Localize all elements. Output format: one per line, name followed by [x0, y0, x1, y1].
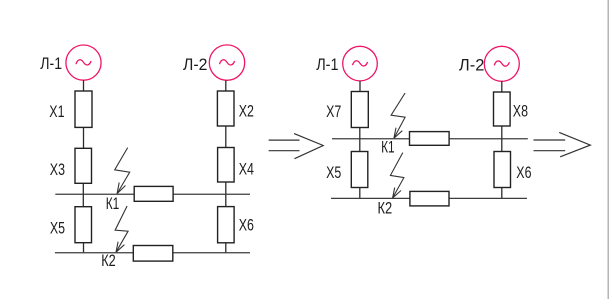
wire X2 to X4	[225, 126, 227, 148]
transform arrow (middle)	[269, 134, 324, 159]
reactor X1	[75, 91, 92, 127]
generator G1 (Л-1 left scheme)	[66, 45, 101, 80]
svg-text:Л-2: Л-2	[459, 55, 484, 74]
reactor X2	[217, 91, 234, 126]
label X6 (left scheme)	[239, 217, 254, 235]
svg-text:X6: X6	[239, 217, 254, 235]
fault arrow K1 (right scheme)	[391, 93, 405, 138]
reactor X5 (left scheme)	[75, 207, 92, 243]
wire X8 to bus 1 (right scheme)	[501, 126, 503, 139]
wire G2 to X2	[225, 80, 227, 91]
reactor block on bus 1 (left scheme)	[134, 186, 173, 201]
bus 2 (right scheme)	[331, 197, 527, 199]
svg-text:X5: X5	[326, 164, 341, 182]
svg-text:К2: К2	[101, 251, 116, 270]
svg-text:X6: X6	[516, 164, 531, 182]
label К2 (right scheme)	[378, 199, 393, 218]
generator G2 (Л-2 left scheme)	[209, 45, 244, 80]
reactor X3	[75, 148, 92, 183]
svg-text:X2: X2	[239, 103, 254, 121]
reactor block on bus 1 (right scheme)	[410, 132, 450, 146]
wire X7 to bus 1 (right scheme)	[359, 128, 361, 139]
reactor X6 (right scheme)	[494, 152, 511, 188]
wire X3 to bus 1	[82, 183, 84, 194]
svg-text:К1: К1	[381, 139, 395, 158]
label X8	[513, 103, 528, 121]
svg-text:X5: X5	[50, 220, 65, 238]
wire G2 to X8	[501, 81, 503, 92]
label X5 (right scheme)	[326, 164, 341, 182]
svg-text:X4: X4	[239, 161, 254, 179]
reactor X7	[351, 92, 368, 128]
wire G1 to X7	[359, 81, 361, 92]
reactor X8	[494, 92, 511, 126]
label X1	[49, 103, 64, 121]
svg-text:X7: X7	[326, 103, 341, 121]
svg-text:Л-1: Л-1	[40, 55, 62, 73]
label Л-1 (left scheme)	[40, 55, 62, 73]
wire X5 to bus 2	[83, 243, 85, 253]
bus 1 (right scheme)	[332, 138, 528, 140]
bus 2 (left scheme)	[55, 252, 250, 254]
label К2 (left scheme)	[101, 251, 116, 270]
svg-text:Л-1: Л-1	[316, 56, 338, 74]
reactor X6 (left scheme)	[218, 207, 235, 243]
svg-text:Л-2: Л-2	[183, 55, 207, 74]
wire X6 to bus 2	[225, 243, 227, 253]
svg-text:X1: X1	[49, 103, 64, 121]
label Л-2 (left scheme)	[183, 55, 207, 74]
label X6 (right scheme)	[516, 164, 531, 182]
wire G1 to X1	[83, 80, 85, 91]
wire X1 to X3	[83, 127, 85, 148]
reactor X5 (right scheme)	[351, 152, 368, 188]
label Л-2 (right scheme)	[459, 55, 484, 74]
label X5 (left scheme)	[50, 220, 65, 238]
reactor X4	[218, 148, 235, 183]
fault arrow K1 (left scheme)	[115, 148, 130, 194]
label К1 (left scheme)	[106, 195, 120, 214]
label К1 (right scheme)	[381, 139, 395, 158]
fault arrow K2 (left scheme)	[115, 206, 128, 252]
svg-text:К2: К2	[378, 199, 393, 218]
label Л-1 (right scheme)	[316, 56, 338, 74]
svg-text:X3: X3	[50, 161, 65, 179]
wire bus 1 to X5	[82, 194, 84, 207]
label X4	[239, 161, 254, 179]
generator G2 (Л-2 right scheme)	[484, 46, 519, 81]
wire X4 through bus 1 to X6	[225, 182, 227, 207]
label X3	[50, 161, 65, 179]
wire bus 1 to X6 (right scheme)	[501, 139, 503, 152]
wire X5 to bus 2 (right scheme)	[359, 188, 361, 199]
page border line (right edge)	[607, 0, 609, 299]
fault arrow K2 (right scheme)	[390, 153, 404, 198]
label X2	[239, 103, 254, 121]
bus 1 (left scheme)	[55, 193, 250, 195]
wire X6 to bus 2 (right scheme)	[501, 188, 503, 199]
reactor block on bus 2 (left scheme)	[133, 246, 173, 262]
svg-text:К1: К1	[106, 195, 120, 214]
generator G1 (Л-1 right scheme)	[343, 46, 378, 81]
reactor block on bus 2 (right scheme)	[410, 191, 449, 206]
wire bus 1 to X5 (right scheme)	[359, 139, 361, 152]
svg-text:X8: X8	[513, 103, 528, 121]
label X7	[326, 103, 341, 121]
result arrow (right)	[534, 132, 591, 156]
